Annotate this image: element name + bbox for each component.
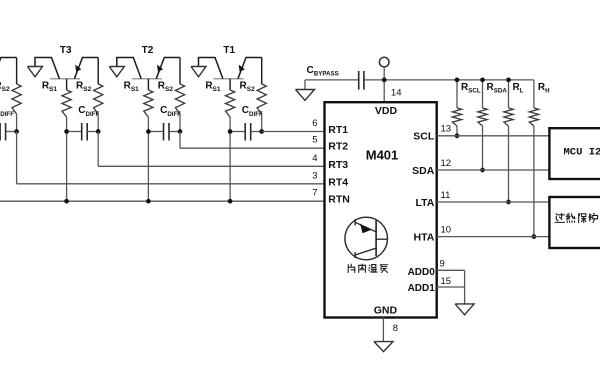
capacitor CBYPASS <box>307 65 364 90</box>
ground for ADD0/ADD1 <box>455 304 474 315</box>
resistor RL pull-up <box>504 78 524 205</box>
svg-text:10: 10 <box>441 224 452 235</box>
svg-text:8: 8 <box>393 323 398 334</box>
wire LTA: pin 11 to protection circuit <box>437 201 550 203</box>
svg-text:RTN: RTN <box>328 194 350 206</box>
svg-text:RT2: RT2 <box>328 141 348 153</box>
svg-text:T2: T2 <box>142 45 154 56</box>
resistor RS1 of T3 <box>42 79 71 201</box>
junction nodes of T3 <box>64 129 100 134</box>
transistor T3 <box>35 45 98 79</box>
svg-text:15: 15 <box>441 276 452 287</box>
capacitor CDIFF of T3 <box>67 105 100 140</box>
svg-text:4: 4 <box>312 153 317 164</box>
svg-text:RT1: RT1 <box>328 124 348 136</box>
svg-text:3: 3 <box>312 170 317 181</box>
pin 4 RT3 label <box>312 153 348 171</box>
wire ADD0 pin 9 to ground <box>437 269 465 271</box>
resistor RS2 of T2 <box>158 58 185 132</box>
svg-text:6: 6 <box>312 118 317 129</box>
pin 5 RT2 label <box>312 135 348 153</box>
capacitor CDIFF of T1 <box>230 105 263 140</box>
wire VDD rail <box>305 80 534 90</box>
svg-text:5: 5 <box>312 135 317 146</box>
svg-text:RT3: RT3 <box>328 159 348 171</box>
pin 7 RTN label <box>312 188 350 206</box>
resistor RS2 of T1 <box>240 58 267 132</box>
resistor RH pull-up <box>529 80 550 239</box>
svg-text:11: 11 <box>441 190 451 201</box>
ground for GND pin 8 <box>374 342 393 352</box>
pin number 14 (VDD) <box>391 88 402 99</box>
svg-text:MCU I2C: MCU I2C <box>564 147 600 159</box>
svg-text:GND: GND <box>374 305 398 317</box>
capacitor CDIFF of T4 <box>0 105 17 140</box>
on-chip temperature BJT symbol <box>345 217 388 260</box>
svg-text:RT4: RT4 <box>328 176 348 188</box>
wire ADD1 pin 15 to ground <box>437 270 465 304</box>
pin 10 HTA label <box>413 224 451 243</box>
ground arrow of T3 collector <box>28 67 43 77</box>
wire RT3 net: T3 emitter node down and to IC pin 4 <box>98 132 324 167</box>
pin 11 LTA label <box>415 190 450 209</box>
pin 6 RT1 label <box>312 118 348 136</box>
wire RTN net: common base return bus to IC pin 7 <box>0 199 325 204</box>
junction nodes of T1 <box>228 129 264 134</box>
on-chip temperature label (pian nei wen du) <box>348 264 387 272</box>
svg-text:SDA: SDA <box>412 165 435 177</box>
ground arrow of T1 collector <box>191 67 206 77</box>
svg-text:SCL: SCL <box>413 131 435 143</box>
transistor T4 <box>0 58 17 79</box>
junction nodes of T2 <box>146 129 182 134</box>
pin 13 SCL label <box>413 124 451 143</box>
resistor RSDA pull-up <box>478 78 507 173</box>
svg-text:12: 12 <box>441 158 452 169</box>
resistor RS1 of T2 <box>124 79 153 201</box>
svg-text:ADD0: ADD0 <box>408 267 436 278</box>
overheat protection circuit box <box>549 197 600 248</box>
resistor RS1 of T1 <box>205 79 234 201</box>
capacitor CDIFF of T2 <box>148 105 181 140</box>
ground for CBYPASS <box>296 90 315 101</box>
transistor T2 <box>117 45 180 79</box>
svg-text:13: 13 <box>441 124 452 135</box>
svg-text:7: 7 <box>312 188 317 199</box>
resistor RS2 of T4 <box>0 58 21 132</box>
transistor T1 <box>199 45 262 79</box>
VDD supply terminal <box>379 57 389 102</box>
svg-text:9: 9 <box>440 259 445 270</box>
resistor RS2 of T3 <box>76 58 103 132</box>
wire RT4 net: T4 emitter node down and to IC pin 3 <box>17 132 325 184</box>
svg-text:T3: T3 <box>60 45 72 56</box>
wire SDA: pin 12 to MCU <box>437 169 550 171</box>
pin 9 ADD0 label <box>408 259 445 278</box>
resistor RSCL pull-up <box>452 78 480 139</box>
wire HTA: pin 10 to protection circuit <box>437 236 550 238</box>
svg-text:VDD: VDD <box>375 105 398 117</box>
wire RT1 net: T1 emitter node to IC pin 6 <box>262 131 325 133</box>
MCU I2C interface box <box>549 128 600 179</box>
wire RT2 net: T2 emitter node down and to IC pin 5 <box>180 132 325 149</box>
svg-text:ADD1: ADD1 <box>408 283 436 294</box>
svg-text:LTA: LTA <box>415 197 434 209</box>
wire SCL: pin 13 to MCU <box>437 135 550 137</box>
wire GND pin 8 <box>383 318 398 342</box>
ground arrow of T2 collector <box>109 67 124 77</box>
svg-text:14: 14 <box>391 88 402 99</box>
pin 15 ADD1 label <box>408 276 452 294</box>
svg-text:M401: M401 <box>366 147 399 162</box>
svg-text:HTA: HTA <box>413 231 434 243</box>
pin 12 SDA label <box>412 158 451 177</box>
junction nodes of T4 <box>0 129 19 134</box>
pin 3 RT4 label <box>312 170 348 188</box>
svg-text:T1: T1 <box>223 45 235 56</box>
op-amp U1 M401 temperature sensor IC body <box>325 102 437 317</box>
